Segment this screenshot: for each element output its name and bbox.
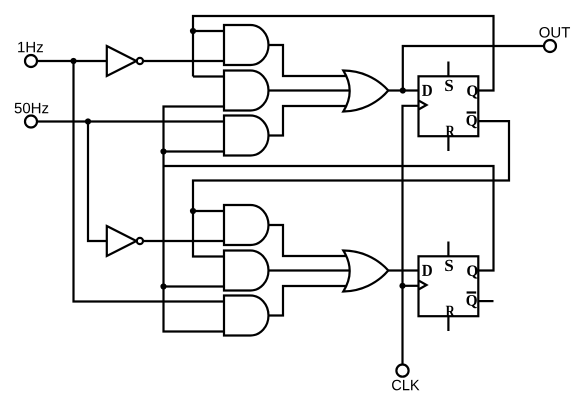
- wire: AND5 input2 branch: [164, 285, 225, 287]
- wire: AND4 input1 branch: [193, 210, 224, 212]
- wire: AND2 output to OR1: [266, 89, 352, 91]
- flip-flop U3: [419, 62, 479, 152]
- OR gate O2: [343, 251, 388, 292]
- U3 pin label D: [422, 85, 432, 96]
- label 1Hz: [18, 42, 24, 52]
- node junction CLK/U4: [399, 283, 405, 289]
- wire: Q2 output horizontal return: [164, 166, 494, 271]
- wire: top feedback Q1 to AND column: [193, 16, 494, 91]
- wire: 1Hz vertical down to AND6: [74, 61, 225, 302]
- wire: AND4 output elbow to OR2: [269, 225, 353, 256]
- OR gate O1: [343, 70, 388, 111]
- wire: CLK branch to U4 clock: [403, 285, 419, 287]
- U3 pin label R: [446, 126, 455, 137]
- wire: inverter U2 output to AND4 input2: [143, 240, 224, 242]
- node junction 50Hz branch: [85, 118, 91, 124]
- wire: AND3 input2 branch: [164, 150, 225, 152]
- U4 pin label Q: [467, 265, 477, 278]
- AND gate A1: [224, 25, 269, 65]
- terminal OUT: [544, 40, 556, 52]
- terminal CLK: [396, 365, 408, 377]
- wire: OR1 output to D of U3: [388, 89, 418, 91]
- terminal 1Hz: [25, 55, 37, 67]
- U4 pin label R: [446, 306, 455, 317]
- node junction Q2/AND3: [160, 148, 166, 154]
- inverter U2: [107, 226, 137, 256]
- wire: OUT riser and top wire: [403, 46, 544, 91]
- wire: AND1 input1 from feedback: [193, 30, 224, 32]
- wire: inverter U1 output to AND1 input2: [143, 60, 224, 62]
- wire: Q1bar feedback to bottom AND group: [193, 121, 509, 256]
- flip-flop U4: [419, 242, 479, 332]
- label CLK: [392, 380, 401, 391]
- AND gate A3: [224, 116, 269, 156]
- wire: AND2 input1 from feedback: [193, 75, 224, 77]
- AND gate A6: [224, 296, 268, 336]
- wire: CLK vertical trunk: [403, 106, 419, 365]
- wire: 1Hz rail to inverter: [37, 60, 107, 62]
- wire: AND5 output to OR2: [266, 269, 352, 271]
- label OUT: [539, 27, 549, 38]
- inverter U1: [107, 46, 137, 76]
- wire: OR2 output to D of U4: [388, 269, 418, 271]
- wire: AND6 output elbow to OR2: [269, 286, 353, 316]
- wire: Q2bar stub: [478, 300, 493, 302]
- node junction feedback/AND1: [190, 28, 196, 34]
- wire: 50Hz rail to AND3 input1: [37, 120, 224, 122]
- wire: AND3 output elbow to OR1: [269, 106, 353, 136]
- node junction 1Hz branch: [70, 58, 76, 64]
- AND gate A5: [224, 251, 269, 291]
- node junction Q2/AND5: [160, 283, 166, 289]
- terminal 50Hz: [25, 116, 37, 128]
- AND gate A2: [224, 71, 269, 111]
- wire: 50Hz vertical down to inverter U2: [88, 122, 107, 242]
- U3 pin label Q: [467, 85, 477, 98]
- U3 pin label S: [445, 80, 453, 91]
- label 50Hz: [15, 103, 22, 113]
- wire: AND1 output elbow to OR1: [269, 45, 353, 76]
- U3 pin label Qbar: [467, 115, 477, 128]
- AND gate A4: [224, 205, 269, 245]
- U4 pin label D: [422, 265, 432, 276]
- wire: Q2 net vertical trunk: [164, 107, 225, 332]
- U4 pin label Qbar: [467, 295, 477, 308]
- node junction Q1bar/AND4: [190, 208, 196, 214]
- node junction OR1 out / OUT riser: [400, 87, 406, 93]
- U4 pin label S: [445, 260, 453, 271]
